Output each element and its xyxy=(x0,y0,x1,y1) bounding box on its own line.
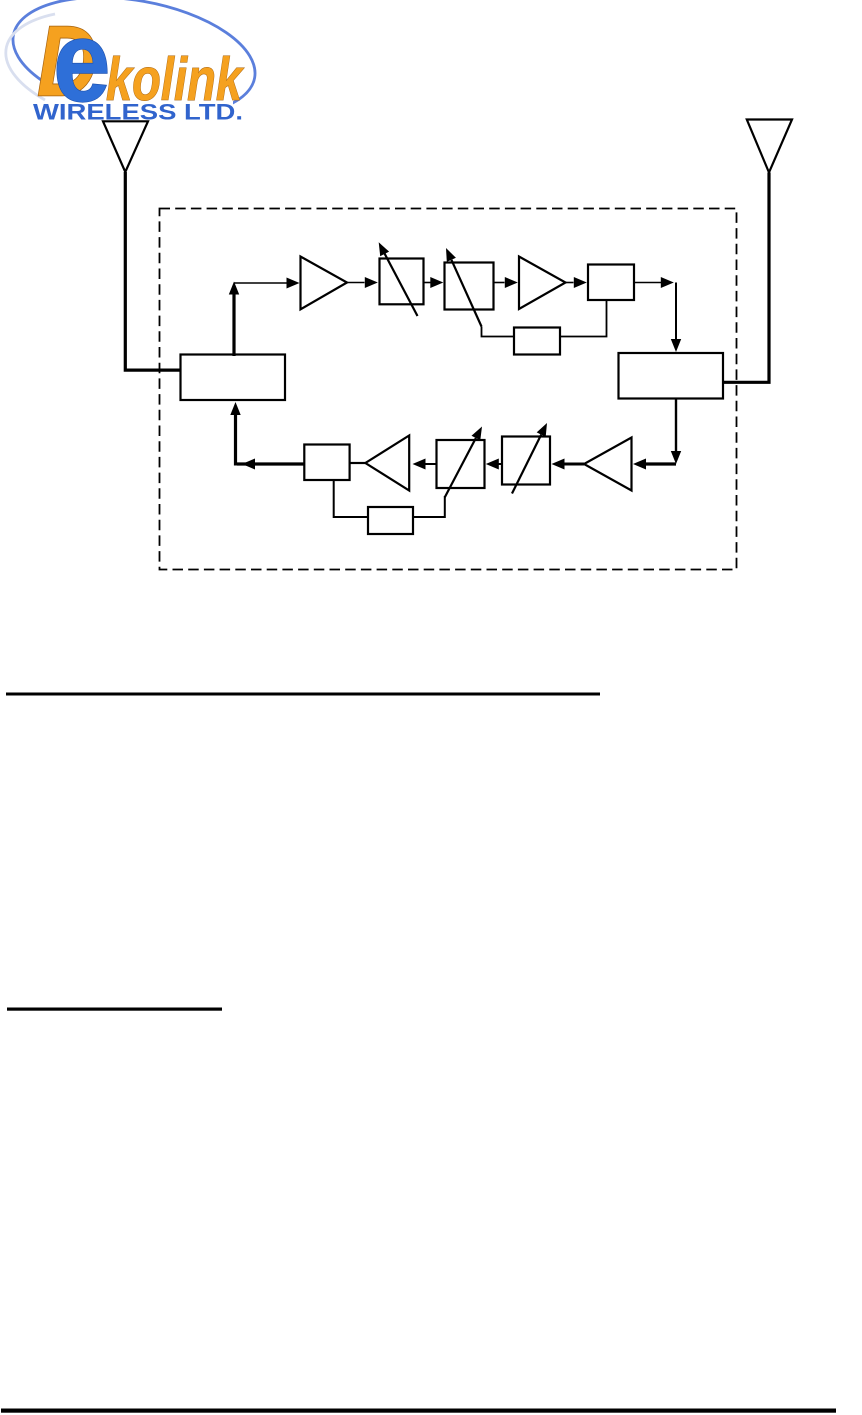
wire A1 to attenuator AT1 xyxy=(347,277,378,288)
wire F1 to duplexer U2 xyxy=(634,277,681,352)
antenna ANT2 (right) xyxy=(723,120,792,383)
heading underline 2 xyxy=(7,1008,222,1011)
logo text backing xyxy=(30,101,233,122)
logo Dekolink Wireless Ltd. xyxy=(4,0,265,133)
amplifier A3 xyxy=(584,438,632,491)
antenna ANT1 (left) xyxy=(103,121,181,370)
wire ANT2 feed to duplexer xyxy=(723,173,769,383)
variable attenuator AT3 xyxy=(502,423,550,494)
wire detector D2 to AT4 xyxy=(413,496,445,517)
detector D1 xyxy=(514,328,560,355)
wire A4 to filter F2 xyxy=(350,462,366,464)
wire AT1 to AT2 xyxy=(424,277,444,288)
logo ellipse faded left arc xyxy=(6,14,55,100)
wire duplexer U1 up to forward chain xyxy=(229,282,239,357)
filter F2 xyxy=(304,445,349,481)
wire A2 to filter F1 xyxy=(566,277,587,288)
wire duplexer U2 down to reverse chain xyxy=(633,399,681,470)
variable attenuator AT1 xyxy=(379,242,424,316)
wire ANT1 feed to duplexer xyxy=(125,172,180,370)
wire AT3 to AT4 xyxy=(486,459,502,470)
wire AT2 to amplifier A2 xyxy=(494,277,518,288)
variable attenuator AT4 xyxy=(437,427,485,498)
filter F1 xyxy=(588,265,634,301)
amplifier A2 xyxy=(519,257,566,310)
footer rule xyxy=(1,1409,836,1413)
wire F2 to duplexer U1 xyxy=(230,402,304,470)
duplexer U2 (right) xyxy=(619,353,724,399)
wire F2 tap to detector D2 xyxy=(334,480,368,517)
amplifier A4 xyxy=(365,436,409,491)
heading underline 1 xyxy=(6,693,600,696)
detector D2 xyxy=(368,507,413,534)
wire AT4 to amplifier A4 xyxy=(413,459,437,470)
wire AT2 tap to detector D1 xyxy=(482,327,514,337)
variable attenuator AT2 xyxy=(445,248,494,327)
logo ellipse xyxy=(4,0,265,133)
enclosure dashed border xyxy=(160,209,737,570)
amplifier A1 xyxy=(301,257,348,310)
duplexer U1 (left) xyxy=(181,355,286,401)
wire to amplifier A1 xyxy=(234,278,300,289)
wire A3 to attenuator AT3 xyxy=(552,459,585,470)
wire detector D1 to F1 xyxy=(560,301,607,337)
